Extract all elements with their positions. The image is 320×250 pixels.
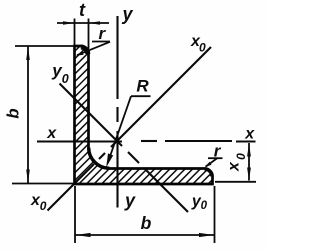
- svg-text:b: b: [4, 108, 23, 118]
- y0 axis (45 deg through centroid): [60, 84, 189, 213]
- svg-text:t: t: [79, 0, 86, 20]
- b bottom: extension lines: [75, 186, 215, 243]
- x axis: [37, 140, 256, 143]
- hatching of angle section: [70, 42, 218, 188]
- top toe radius arc (bold ink): [81, 47, 88, 54]
- R leader (inner fillet): [108, 96, 151, 163]
- b left: extension lines: [12, 46, 74, 184]
- svg-text:x: x: [244, 126, 255, 143]
- t dim arrows: [63, 21, 75, 25]
- svg-text:0: 0: [62, 72, 69, 86]
- b bottom dim arrows: [76, 233, 91, 237]
- r right leader arrowhead: [205, 162, 212, 168]
- svg-text:0: 0: [199, 41, 206, 55]
- svg-text:b: b: [141, 213, 152, 233]
- x0 right dimension: [215, 143, 256, 182]
- svg-text:r: r: [98, 24, 106, 43]
- x0 dim arrows: [247, 144, 251, 157]
- label x0 rotated right side: [226, 153, 249, 172]
- svg-text:R: R: [136, 76, 149, 95]
- t dimension line: [57, 22, 109, 24]
- r leader (right toe radius): [206, 158, 223, 167]
- svg-text:y: y: [121, 4, 133, 24]
- r top leader arrowhead: [76, 51, 84, 56]
- svg-text:0: 0: [201, 200, 208, 212]
- right toe radius arc (bold ink): [205, 169, 213, 177]
- svg-text:x: x: [46, 125, 57, 142]
- y axis: [116, 16, 118, 208]
- svg-text:x: x: [226, 161, 243, 172]
- svg-text:y: y: [124, 191, 136, 211]
- svg-text:0: 0: [40, 199, 47, 213]
- label b left rotated: [4, 108, 23, 118]
- r leader (top toe radius): [77, 42, 110, 56]
- b left dimension line: [27, 47, 29, 184]
- angle section outline: [75, 46, 213, 184]
- b left dim arrows: [26, 47, 30, 61]
- x0 axis (45 deg through corner and centroid): [48, 47, 212, 211]
- t dimension extension lines: [57, 19, 109, 50]
- svg-text:0: 0: [234, 153, 248, 160]
- R leader arrowhead: [106, 153, 113, 167]
- inner fillet arc R (bold ink): [89, 148, 110, 169]
- b bottom dimension line: [75, 234, 215, 236]
